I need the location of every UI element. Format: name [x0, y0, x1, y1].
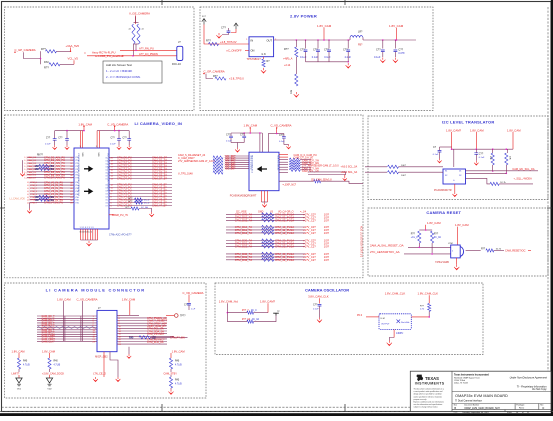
svg-text:R43: R43 — [175, 379, 180, 381]
svg-text:1.8V_CAM_CLK: 1.8V_CAM_CLK — [385, 291, 406, 295]
level translator U5 — [443, 149, 466, 184]
svg-text:MICP_CB2: MICP_CB2 — [95, 355, 108, 358]
svg-text:+VAA_5V0: +VAA_5V0 — [66, 44, 80, 48]
resistor divider branch R-fb — [283, 39, 298, 94]
capacitor C4 — [312, 39, 320, 62]
pullup resistor RP2 — [505, 149, 511, 174]
output wire SCL — [466, 168, 539, 171]
U3 supply double wires left — [81, 131, 83, 148]
svg-text:0.0?F: 0.0?F — [398, 52, 405, 55]
right bypass bus — [97, 130, 129, 132]
RC row 2 — [227, 316, 276, 324]
resistor below GND pin — [262, 57, 270, 67]
ferrite bead FB1 — [350, 30, 363, 46]
ground under gate — [454, 258, 459, 270]
red text strip below U4 — [236, 211, 307, 214]
svg-text:1.8V_CAM: 1.8V_CAM — [12, 349, 26, 353]
svg-text:1.8V_CAM: 1.8V_CAM — [389, 24, 404, 28]
svg-text:1B2: 1B2 — [35, 168, 40, 171]
svg-text:10K: 10K — [489, 156, 491, 160]
gnd bus under caps — [306, 61, 350, 63]
svg-text:Worldwide OMAP Support Team: Worldwide OMAP Support Team — [454, 376, 480, 379]
osc bottom stub — [394, 329, 404, 337]
svg-text:C?M_P?_EN: C?M_P?_EN — [170, 336, 185, 339]
svg-text:C??: C?? — [58, 137, 63, 139]
title CAMERA OSCILLATOR — [305, 287, 349, 292]
svg-text:4.7L/B: 4.7L/B — [175, 383, 182, 385]
svg-text:D1: D1 — [459, 171, 461, 173]
svg-text:O1: O1 — [105, 160, 107, 162]
arrow glyph inside U4 — [258, 167, 267, 171]
ground tap on group 2 — [27, 203, 32, 214]
black flag 2 — [46, 375, 52, 390]
svg-text:O0: O0 — [105, 185, 107, 187]
svg-text:1.8V_CAM: 1.8V_CAM — [244, 124, 258, 128]
node 1.8V_CAM gate — [455, 223, 469, 245]
net CAM_RESET — [505, 248, 531, 252]
svg-text:C??: C?? — [111, 137, 116, 139]
U4 right pin rows with resistors — [279, 154, 339, 173]
TI incorporated address — [454, 373, 489, 384]
label PCA9306 — [434, 189, 452, 192]
svg-text:This document contains informa: This document contains information on a — [414, 388, 444, 391]
svg-text:LI CAMERA_VIDEO_IN: LI CAMERA_VIDEO_IN — [135, 121, 183, 126]
pulldown group 1 — [12, 349, 31, 375]
U4 bottom stubs and ground — [262, 191, 268, 208]
TI legal small print — [414, 388, 444, 409]
input net lower — [370, 250, 451, 255]
capacitor C11 — [474, 149, 485, 161]
svg-text:TP??: TP?? — [180, 316, 186, 318]
pullup resistor pair — [411, 229, 442, 253]
svg-text:2?C_AESTARTOV_AA: 2?C_AESTARTOV_AA — [370, 250, 400, 254]
svg-text:ADJ: ADJ — [290, 90, 293, 94]
wire to connector pin 2 — [87, 55, 177, 57]
svg-text:FFC-10: FFC-10 — [172, 62, 181, 66]
svg-text:+A3.0 SCL_3A: +A3.0 SCL_3A — [341, 166, 358, 169]
U3 power pin stubs — [80, 146, 97, 148]
svg-text:C?M_D7_AIN_PU: C?M_D7_AIN_PU — [44, 176, 65, 180]
power flag 2 — [231, 23, 238, 33]
U4 top pin stubs — [259, 132, 268, 152]
RC row 1 — [227, 310, 268, 314]
svg-text:R??: R?? — [411, 234, 416, 236]
oscillator X1 — [379, 314, 411, 330]
svg-text:C_VD_CAMERA: C_VD_CAMERA — [107, 122, 128, 126]
svg-text:1/0?: 1/0? — [324, 218, 330, 222]
input label P0.0 — [357, 314, 379, 317]
ground under C21 — [65, 145, 69, 149]
svg-text:0C_0A: 0C_0A — [434, 236, 441, 239]
svg-text:+2.8_TP/5.0V: +2.8_TP/5.0V — [220, 40, 237, 44]
svg-text:+4(R)_A: +4(R)_A — [283, 57, 293, 60]
label MICP_CB2 — [95, 355, 108, 358]
svg-text:LI_CAM_D0: LI_CAM_D0 — [25, 156, 37, 159]
node C_VD_CAMERA top — [77, 297, 98, 341]
svg-text:O3: O3 — [105, 166, 107, 168]
right row labels — [147, 316, 168, 344]
svg-text:R??: R?? — [481, 249, 486, 251]
svg-text:+2.8_TP/5.0: +2.8_TP/5.0 — [229, 77, 244, 81]
regulator U2 TPS798 — [246, 37, 277, 61]
svg-text:OUTPUT: OUTPUT — [381, 324, 390, 326]
svg-text:O0: O0 — [105, 157, 107, 159]
termination rows group 3 — [226, 239, 330, 249]
node 1.8V_CAM b — [470, 128, 484, 149]
svg-text:O5: O5 — [105, 200, 107, 202]
ground under U4 caps — [235, 148, 240, 153]
input wire SDA — [341, 171, 444, 177]
svg-text:0.1uF: 0.1uF — [324, 56, 331, 59]
vertical note text at block edge — [360, 226, 363, 258]
svg-text:A??_1N_PWDN: A??_1N_PWDN — [139, 52, 158, 56]
capacitor C10 — [433, 146, 452, 158]
svg-text:OMAP35x EVM MAIN BOARD: OMAP35x EVM MAIN BOARD — [455, 394, 508, 398]
svg-text:S2: S2 — [445, 175, 447, 177]
svg-text:LR?: LR? — [358, 30, 363, 33]
svg-text:INSTRUMENTS: INSTRUMENTS — [415, 381, 445, 385]
svg-text:TEXAS: TEXAS — [425, 376, 439, 381]
ground under C11 — [474, 161, 478, 165]
node 1.8V_CAM_%d — [219, 300, 239, 322]
svg-text:=_EXP_NC?: =_EXP_NC? — [283, 184, 297, 187]
svg-text:1.8V_CAM?: 1.8V_CAM? — [446, 128, 462, 132]
svg-text:O3: O3 — [105, 194, 107, 196]
svg-text:Tuesday, September 04, 2007: Tuesday, September 04, 2007 — [462, 411, 490, 414]
svg-text:0.1uF: 0.1uF — [110, 144, 116, 146]
U4 left pin wires — [225, 155, 253, 171]
ground for cap bus — [346, 63, 351, 68]
capacitor C3 — [300, 39, 307, 62]
svg-text:Rene: Rene — [519, 408, 525, 410]
node V_GE_CAMERA — [129, 12, 150, 24]
svg-text:LI_C?M_2: LI_C?M_2 — [27, 188, 38, 190]
capacitor C-in — [221, 25, 230, 34]
capacitor C23 — [123, 131, 132, 146]
node C_GP_CAMERA lower left — [203, 70, 224, 79]
camera connector J2 — [97, 307, 117, 351]
svg-text:+1?V_C2?: +1?V_C2? — [303, 218, 316, 222]
svg-text:VDD: VDD — [81, 153, 83, 158]
svg-text:1/0?: 1/0? — [324, 245, 330, 249]
svg-text:10K: 10K — [509, 156, 511, 160]
node 1.8V_CAM_CLK b — [418, 291, 439, 303]
svg-text:ON: ON — [251, 49, 255, 53]
resistor above output — [420, 303, 431, 317]
svg-text:TPS79801?: TPS79801? — [247, 57, 262, 61]
block border: 2.8V power — [200, 7, 433, 111]
svg-text:O4: O4 — [105, 197, 107, 199]
svg-text:1.8V_CAM: 1.8V_CAM — [57, 297, 71, 301]
ground stub under connector right — [127, 347, 131, 359]
ground under osc cap — [317, 318, 322, 323]
svg-text:1B2: 1B2 — [152, 336, 157, 339]
svg-text:LI_CAM_VD0: LI_CAM_VD0 — [10, 198, 26, 201]
svg-text:C?M_VSYNC?: C?M_VSYNC? — [147, 332, 165, 336]
wire to connector pin 1 — [120, 50, 177, 52]
svg-text:1.8V_CAM: 1.8V_CAM — [470, 128, 484, 132]
svg-text:1B2: 1B2 — [35, 199, 40, 202]
node 1.8V_CAM pullup — [426, 221, 441, 230]
second resistor group 3 — [169, 375, 182, 390]
svg-text:R??: R?? — [434, 234, 439, 236]
svg-text:CAM_STBY: CAM_STBY — [164, 372, 178, 375]
svg-text:C_VD_CAMERA: C_VD_CAMERA — [183, 291, 204, 295]
svg-text:+A3.0 SDL_3A: +A3.0 SDL_3A — [341, 171, 358, 174]
U3 bottom pin stubs — [80, 229, 98, 240]
svg-text:R40: R40 — [129, 336, 134, 339]
output wire SDA2 — [466, 172, 507, 174]
resistor R2 bottom — [44, 60, 74, 70]
svg-text:0.1uF: 0.1uF — [374, 56, 381, 59]
svg-text:C?M_02_PU1A: C?M_02_PU1A — [275, 218, 294, 222]
svg-text:1/0?: 1/0? — [324, 258, 330, 262]
svg-text:purpose use only.: purpose use only. — [414, 398, 428, 401]
node LI_CAM_VD0 — [10, 198, 26, 201]
svg-text:4.7L/B: 4.7L/B — [23, 364, 30, 366]
svg-text:C_GP_CAMERA: C_GP_CAMERA — [204, 70, 225, 74]
svg-text:Document Number: Document Number — [464, 404, 479, 407]
svg-text:1.8V_CAM: 1.8V_CAM — [122, 297, 136, 301]
svg-text:R40: R40 — [175, 360, 180, 362]
svg-text:R??: R?? — [206, 39, 211, 43]
svg-text:LI_C?M_0: LI_C?M_0 — [27, 182, 38, 184]
svg-text:Y2C_D6?: Y2C_D6? — [225, 168, 236, 171]
connector J1 FFC-10 — [172, 40, 183, 66]
svg-text:Size: Size — [454, 405, 458, 407]
node 1.8V_CAM osc b — [260, 300, 276, 313]
svg-text:I2C LEVEL TRANSLATOR: I2C LEVEL TRANSLATOR — [442, 120, 494, 125]
svg-text:10,7k: 10,7k — [496, 248, 502, 250]
U3 top inner pin names — [79, 154, 99, 156]
NDA notices — [510, 377, 548, 391]
capacitor C21 — [58, 131, 69, 146]
svg-text:0.1uF: 0.1uF — [312, 56, 319, 59]
node 1.8V_CAM above U4 — [244, 124, 258, 133]
svg-text:1.uF: 1.uF — [191, 308, 196, 310]
title block frame — [410, 371, 551, 411]
svg-text:Date:: Date: — [454, 411, 459, 414]
capacitor C5 — [324, 39, 331, 62]
svg-text:1.8V_CAM: 1.8V_CAM — [427, 221, 441, 225]
svg-text:0C_0: 0C_0 — [144, 200, 150, 202]
svg-text:0.1uF: 0.1uF — [45, 144, 51, 146]
svg-text:+1?V_C2?: +1?V_C2? — [303, 245, 316, 249]
pulldown group 2 — [42, 349, 64, 375]
size and document number — [454, 404, 545, 411]
svg-text:1.8V_CAM_CLK: 1.8V_CAM_CLK — [418, 291, 439, 295]
svg-text:G 0 0 8 0 0 2 1: G 0 0 8 0 0 2 1 — [80, 231, 93, 233]
svg-text:CAM_RESET/OC: CAM_RESET/OC — [505, 248, 526, 252]
black flag 1 — [16, 375, 22, 390]
svg-text:C?M_32_PU1A: C?M_32_PU1A — [275, 258, 294, 262]
node 1.8V_CAM top a — [57, 297, 71, 341]
board title — [455, 394, 508, 403]
svg-text:1.8V_CAM: 1.8V_CAM — [317, 24, 332, 28]
node 3.8V_CAM_CLK — [308, 294, 329, 303]
2.8V output rail — [274, 39, 416, 41]
svg-text:Under Non-Disclosure Agreement: Under Non-Disclosure Agreement — [510, 377, 548, 380]
output resistor — [481, 248, 504, 252]
svg-text:C?M+A2C+PO+E??: C?M+A2C+PO+E?? — [109, 233, 132, 236]
svg-text:DNI: DNI — [44, 60, 49, 64]
svg-text:C??: C?? — [221, 25, 226, 29]
svg-text:LI_C?M_1: LI_C?M_1 — [27, 185, 38, 187]
svg-text:1.8V_CAM: 1.8V_CAM — [455, 223, 469, 227]
svg-text:R: R — [128, 28, 131, 30]
svg-text:1.8V_CAM: 1.8V_CAM — [507, 128, 521, 132]
test point TP2 — [273, 311, 280, 316]
svg-text:PCA9543ADBQR/3KRT: PCA9543ADBQR/3KRT — [230, 195, 257, 198]
connector bottom stubs — [104, 352, 118, 377]
label PCA9543 — [230, 195, 257, 198]
ground under U3 — [81, 240, 98, 246]
svg-text:O7: O7 — [105, 179, 107, 181]
svg-text:C?M_D02_?A: C?M_D02_?A — [235, 218, 252, 222]
node 1.8V_CAM above U3 — [78, 122, 92, 130]
svg-text:3.8V_CAM_CLK: 3.8V_CAM_CLK — [308, 294, 329, 298]
svg-text:+1?V_C2?: +1?V_C2? — [303, 258, 316, 262]
svg-text:C?M_22_PU1A: C?M_22_PU1A — [275, 245, 294, 249]
svg-text:U?M: U?M — [448, 243, 453, 245]
power flag VIN — [202, 16, 207, 25]
ground near C-in — [216, 33, 221, 38]
input wire SCL — [341, 165, 444, 169]
svg-text:2AM_ALSAL_RESET_OA: 2AM_ALSAL_RESET_OA — [370, 244, 404, 248]
node VCL_V5 — [68, 57, 79, 65]
left bypass bus — [55, 130, 85, 132]
svg-text:CAM_CLK?: CAM_CLK? — [42, 340, 56, 343]
svg-text:R??: R?? — [41, 47, 46, 51]
osc output wire — [411, 316, 430, 318]
svg-text:Texas Instruments Incorporated: Texas Instruments Incorporated — [454, 373, 489, 376]
svg-text:R: R — [141, 28, 144, 30]
op-amp U3 video buffer IC — [74, 148, 109, 229]
svg-text:CAM_I2C_SCL_OA: CAM_I2C_SCL_OA — [512, 168, 534, 171]
ground under oscillator — [387, 338, 394, 346]
svg-text:P0.0: P0.0 — [357, 314, 363, 317]
svg-text:Express conditions and use inf: Express conditions and use informations — [414, 401, 444, 404]
pullup resistor RP1 — [489, 149, 494, 172]
ground under C20 — [53, 145, 57, 149]
output row group 2 (8 wires) — [105, 183, 172, 208]
svg-text:LI CAMERA MODULE CONNECTOR: LI CAMERA MODULE CONNECTOR — [46, 287, 146, 292]
ground group 3 — [169, 390, 174, 395]
svg-text:S1: S1 — [445, 171, 447, 173]
svg-text:1K.7k: 1K.7k — [500, 182, 506, 184]
svg-text:+1?V_C2?: +1?V_C2? — [303, 231, 316, 235]
capacitor C7 — [374, 39, 385, 63]
svg-text:R??_?: R??_? — [242, 310, 249, 312]
capacitor C8 — [393, 39, 405, 63]
svg-text:1.8V_CAM: 1.8V_CAM — [78, 122, 92, 126]
svg-text:D: D — [543, 407, 545, 410]
wire VIN to regulator — [204, 25, 249, 45]
svg-text:1: 1 — [96, 146, 97, 148]
svg-text:C?M_D7_PU: C?M_D7_PU — [117, 178, 132, 181]
svg-text:2.8V POWER: 2.8V POWER — [290, 13, 317, 18]
svg-text:Protohype: Protohype — [516, 404, 524, 407]
net CAM8_PU row — [109, 214, 128, 217]
arrow glyph 1 inside U3 — [84, 167, 92, 171]
svg-text:C?M_FLD_0A: C?M_FLD_0A — [147, 340, 164, 344]
svg-text:O6: O6 — [105, 203, 107, 205]
svg-text:C??: C?? — [46, 137, 51, 139]
svg-text:C?M_D32_?A: C?M_D32_?A — [235, 258, 252, 262]
svg-text:C?M_12_PU1A: C?M_12_PU1A — [275, 231, 294, 235]
svg-text:subject to change without noti: subject to change without notice. — [414, 406, 439, 409]
arrow glyph 2 inside U3 — [84, 190, 92, 194]
title LI CAMERA MODULE CONNECTOR — [46, 287, 146, 292]
svg-text:+CL_0: +CL_0 — [411, 237, 419, 239]
svg-text:1.8V_CAM: 1.8V_CAM — [42, 349, 56, 353]
svg-text:10K?: 10K? — [401, 165, 407, 167]
block border: camera power option — [5, 7, 195, 111]
connector right wires — [117, 315, 174, 346]
svg-text:RN??: RN?? — [37, 154, 44, 156]
right resistor pack — [129, 336, 188, 340]
node 1.8V_CAM_CLK a — [385, 291, 406, 295]
svg-text:LI_CAM_D5: LI_CAM_D5 — [25, 171, 37, 174]
svg-text:OMAP_EVM_MAIN_BOARD_SCH: OMAP_EVM_MAIN_BOARD_SCH — [464, 407, 500, 410]
svg-text:LI_CAM_D6: LI_CAM_D6 — [25, 174, 37, 177]
wire from C_GP_CAMERA to resistor pair — [24, 51, 42, 64]
ground bottom 2 — [116, 377, 121, 382]
svg-text:CAM_V7_B?: CAM_V7_B? — [152, 204, 167, 208]
title I2C LEVEL TRANSLATOR — [442, 120, 494, 125]
ground below divider — [294, 92, 299, 97]
label 74HLV — [435, 261, 449, 264]
svg-text:G N: G N — [262, 54, 266, 56]
node 1.8V_CAM right — [389, 24, 404, 41]
block border: camera reset — [368, 208, 548, 276]
svg-text:O5: O5 — [105, 173, 107, 175]
svg-text:I2C_CAM_SDA/1.8: I2C_CAM_SDA/1.8 — [311, 178, 332, 181]
svg-text:C??: C?? — [376, 49, 381, 52]
svg-text:O1: O1 — [105, 188, 107, 190]
connector left wires — [37, 315, 97, 343]
svg-text:CAM8_PU_?C: CAM8_PU_?C — [112, 214, 129, 217]
block border: camera oscillator — [215, 283, 483, 355]
svg-text:O2: O2 — [105, 191, 107, 193]
termination rows group 4 — [226, 252, 330, 262]
node C_VD_CAMERA above U4 — [271, 124, 292, 134]
svg-text:C_GP_CAMERA: C_GP_CAMERA — [15, 48, 36, 52]
input row group 2 (8 wires) — [27, 180, 79, 204]
svg-text:ADD LILI SCREEN TEXT 1-2: ADD LILI SCREEN TEXT 1-2 — [360, 226, 363, 258]
termination rows group 2 — [226, 225, 330, 235]
U4 bypass caps left — [226, 132, 262, 147]
node C_VD_CAMERA above U3 — [107, 122, 128, 130]
svg-text:Do Not Copy: Do Not Copy — [532, 388, 547, 391]
top rail in translator — [451, 148, 513, 150]
test point TP — [166, 314, 186, 318]
svg-text:1.8V_CAM_%d: 1.8V_CAM_%d — [219, 300, 239, 304]
svg-text:C?M_V7_PU: C?M_V7_PU — [117, 205, 132, 208]
svg-text:LIMIT?: LIMIT? — [12, 372, 20, 375]
svg-text:0C_0: 0C_0 — [144, 203, 150, 205]
svg-text:CAM_D7_B?: CAM_D7_B? — [152, 177, 167, 181]
svg-text:0C_0A: 0C_0A — [252, 318, 259, 321]
svg-text:14MHz: 14MHz — [396, 333, 404, 335]
svg-text:LI_C?M_7: LI_C?M_7 — [27, 203, 38, 205]
note box — [103, 61, 162, 83]
svg-text:Sheet: Sheet — [507, 411, 512, 414]
title CAMERA RESET — [426, 210, 461, 215]
svg-text:VCL_V5: VCL_V5 — [68, 57, 79, 61]
svg-text:2 - 3 => BOISG6(12 CONN.: 2 - 3 => BOISG6(12 CONN. — [106, 75, 141, 79]
svg-text:0.1uF: 0.1uF — [279, 141, 285, 143]
